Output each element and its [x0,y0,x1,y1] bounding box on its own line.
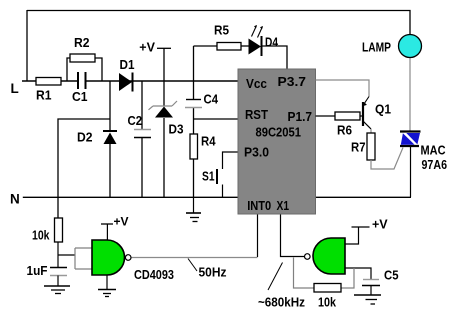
node N neutral rail [23,196,411,198]
svg-text:P1.7: P1.7 [288,109,313,124]
power +V bar main [157,47,171,49]
svg-text:~680kHz: ~680kHz [258,295,305,310]
wire left vertical L feed [26,10,28,81]
svg-text:L: L [11,81,19,96]
capacitor 1uF [50,267,67,269]
resistor R7 [367,133,375,160]
diode D1 [119,73,132,91]
wire D2 vertical [109,82,111,132]
resistor R5 [217,43,241,51]
capacitor C2 [134,129,151,131]
svg-text:INT0: INT0 [247,198,271,213]
resistor 10k feedback [314,284,341,293]
transistor Q1 [362,102,364,126]
svg-text:P3.7: P3.7 [278,74,307,89]
power +V bar gate2 [352,226,370,228]
wire R7 to triac gate [371,148,403,170]
wire junction to gate inputs [58,254,75,256]
feedback wire via 10k [294,258,315,289]
capacitor C4 [186,99,201,101]
svg-text:C5: C5 [384,268,399,283]
wire S1 to P3.0 [223,152,239,169]
gate1 input rectangle wires [75,248,92,269]
svg-text:R1: R1 [36,88,52,103]
svg-text:+V: +V [114,215,129,229]
wire R5 horizontal [194,45,218,47]
wire +V / D3 vertical [163,48,165,105]
ground below gate1 [106,275,108,289]
ground below R4 [193,197,195,213]
IC U1 89C2051 [238,69,316,214]
svg-text:N: N [10,191,20,206]
svg-text:RST: RST [245,107,268,122]
zener diode D3 [153,105,172,107]
svg-text:D1: D1 [120,57,135,72]
svg-text:D3: D3 [169,122,184,137]
wire tap to 10k divider [58,119,110,218]
ground below 1uF [57,276,59,286]
wire P3.7 to Q1 [316,80,370,97]
wire R2 branch right [95,58,102,81]
svg-text:X1: X1 [277,198,290,213]
wire top rail from L to lamp [27,11,410,35]
svg-text:D2: D2 [77,130,93,145]
svg-text:Vcc: Vcc [246,76,267,91]
wire R5 C4 R4 vertical [193,46,195,100]
wire C2 vertical [141,82,143,130]
LED D4 arrows [252,26,257,37]
svg-text:1uF: 1uF [27,263,48,278]
svg-text:C2: C2 [128,113,143,128]
svg-text:D4: D4 [265,35,279,50]
wire INT0 vertical [257,214,259,257]
svg-text:+V: +V [139,40,155,54]
resistor R6 [335,112,360,120]
svg-text:R2: R2 [74,35,90,50]
wire 50Hz gate1 output to INT0 [132,257,258,259]
resistor R4 [190,134,198,159]
node L live rail [22,80,78,82]
LED D4 [249,39,262,55]
wire R2 branch left [67,58,70,81]
svg-text:89C2051: 89C2051 [256,124,302,139]
wire lamp to triac [409,58,411,132]
gate2 bottom input wire to C5 [345,268,371,279]
svg-text:R6: R6 [337,123,352,138]
svg-text:S1: S1 [202,169,215,184]
gate2 +V input wire [345,227,359,244]
pointer 50Hz [188,259,197,272]
capacitor C1 [77,72,79,89]
svg-text:MAC: MAC [421,143,447,158]
svg-text:C1: C1 [72,89,88,104]
svg-text:Q1: Q1 [375,102,391,117]
lamp [399,35,422,58]
svg-text:97A6: 97A6 [422,157,448,172]
wire 10k to 1uF junction [57,242,59,268]
capacitor C5 [363,279,379,281]
svg-text:10k: 10k [32,228,50,243]
wire P1.7 to R6 [316,115,336,117]
wire X1 vertical to oscillator [281,214,305,257]
svg-text:P3.0: P3.0 [244,144,269,159]
wire C4 to RST [194,118,239,120]
wire D4 to chip top P3.7 [262,46,287,69]
gate1 +V wire [106,224,108,240]
resistor 10k left [55,218,63,242]
ground below C5 [370,286,372,295]
gate2 output bubble [305,254,311,260]
resistor R1 [36,78,61,86]
resistor R2 [70,54,95,62]
wire triac to N [410,147,412,198]
diode D2 [103,130,117,132]
svg-text:C4: C4 [204,92,219,107]
gate1 output bubble [125,255,131,261]
switch S1 bar [216,169,218,184]
svg-text:R4: R4 [201,134,216,149]
svg-text:10k: 10k [318,295,337,310]
svg-text:50Hz: 50Hz [199,265,227,280]
svg-text:+V: +V [372,218,388,232]
svg-text:LAMP: LAMP [362,40,391,55]
NAND gate U2 oscillator [313,238,345,274]
svg-text:R5: R5 [214,23,229,38]
pointer 680kHz [268,263,283,291]
NAND gate U1 CD4093 [92,240,125,275]
svg-text:CD4093: CD4093 [134,267,174,282]
svg-text:R7: R7 [351,140,366,155]
triac MAC 97A6 [400,130,421,132]
power +V bar gate1 [101,223,113,225]
